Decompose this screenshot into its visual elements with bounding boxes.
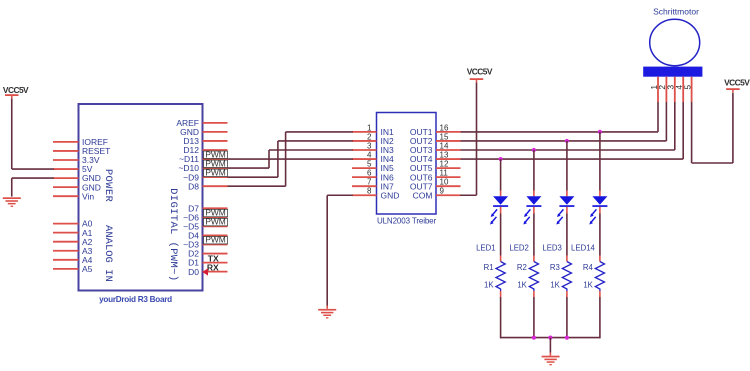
wire: stub of Arduino pin A5 (left, y=268.9) xyxy=(53,268,79,270)
wire: D8 run right xyxy=(228,185,286,187)
ground symbol (left) xyxy=(3,197,21,199)
wire: stub of Arduino pin D4 (right, y=235.5) xyxy=(203,234,228,236)
svg-text:VCC5V: VCC5V xyxy=(467,67,493,77)
wire: stepper pin 1 down to OUT1 row xyxy=(657,102,659,132)
wire: stub of Arduino pin A4 (left, y=259.8) xyxy=(53,259,79,261)
wire: stepper pin 2 stub (red) xyxy=(665,77,667,102)
svg-text:R1: R1 xyxy=(484,263,494,272)
boxed label PWM at pin row y=168.1 xyxy=(204,158,228,168)
wire: stepper pin 5 down xyxy=(691,102,693,163)
svg-text:GND: GND xyxy=(381,190,400,200)
wire: OUT3 row to stepper pin 3 xyxy=(461,149,675,151)
svg-text:3: 3 xyxy=(367,141,372,150)
wire: D10 run right xyxy=(228,167,270,169)
wire: LED1 cathode stub xyxy=(500,207,502,214)
wire: branch 3 from tap down to LED xyxy=(566,141,568,191)
svg-text:14: 14 xyxy=(440,141,449,150)
wire: stub of ULN2003 pin 8 (GND) xyxy=(352,194,377,196)
wire: branch 1 from tap down to LED xyxy=(500,159,502,190)
wire: stub of Arduino pin D7 (right, y=208.3) xyxy=(203,207,228,209)
wire: stub of Arduino pin GND (right, y=131.9) xyxy=(203,131,228,133)
svg-text:D8: D8 xyxy=(188,181,199,191)
wire: D10 to IN3 xyxy=(269,149,353,151)
svg-text:1K: 1K xyxy=(583,281,593,290)
wire: ground red tip xyxy=(549,353,551,356)
node junction LED3 tap xyxy=(565,139,569,143)
ground symbol (LED rail) xyxy=(542,356,560,358)
wire: stub of Arduino pin RESET (left, y=151.0) xyxy=(53,150,79,152)
wire: ULN2003 GND down xyxy=(326,195,328,305)
IC U2 ULN2003 outline xyxy=(377,113,437,215)
wire: Arduino GND to ground (vertical) xyxy=(11,178,13,197)
wire: LED3 anode stub xyxy=(566,191,568,197)
wire: resistor R3 top stub xyxy=(566,256,568,262)
Arduino board U1 outline (yourDroid R3) xyxy=(79,104,203,291)
wire: VCC5V to Arduino 5V (horizontal) xyxy=(12,168,54,170)
wire: stub of ULN2003 pin 9 (COM) xyxy=(436,194,461,196)
wire: stub of Arduino pin Vin (left, y=196.2) xyxy=(53,195,79,197)
wire: VCC5V to Arduino 5V (vertical) xyxy=(11,99,13,169)
wire: rail down to ground xyxy=(549,338,551,353)
wire: LED3 cathode stub xyxy=(566,207,568,214)
wire: D8 jog up xyxy=(285,132,287,186)
svg-text:6: 6 xyxy=(367,169,372,178)
svg-text:LED1: LED1 xyxy=(476,244,496,253)
boxed label PWM at pin row y=217.4 xyxy=(204,208,228,218)
LED LED1 symbol xyxy=(490,196,508,224)
wire: stepper pin 3 stub (red) xyxy=(674,77,676,102)
wire: stub of Arduino pin ~D3 (right, y=244.5) xyxy=(203,244,228,246)
node junction LED1 tap xyxy=(499,157,503,161)
wire: common cathode rail xyxy=(501,337,600,339)
wire: VCC riser (right) xyxy=(732,93,734,163)
wire: stub of ULN2003 pin 4 (IN4) xyxy=(352,158,377,160)
boxed label PWM at pin row y=177.2 xyxy=(204,167,228,177)
wire: branch 2 resistor to rail xyxy=(533,297,535,338)
svg-text:16: 16 xyxy=(440,123,449,132)
wire: LED14 cathode stub xyxy=(599,207,601,214)
svg-text:LED3: LED3 xyxy=(542,244,562,253)
node junction LED14 tap xyxy=(598,130,602,134)
wire: stub of ULN2003 pin 6 (IN6) xyxy=(352,176,377,178)
svg-text:1K: 1K xyxy=(550,281,560,290)
wire: resistor R4 top stub xyxy=(599,256,601,262)
node junction LED2 tap xyxy=(532,148,536,152)
wire: stub of Arduino pin A1 (left, y=232.7) xyxy=(53,232,79,234)
wire: D11 to IN4 xyxy=(228,158,353,160)
wire: stub of ULN2003 pin 10 (OUT7) xyxy=(436,185,461,187)
svg-text:R3: R3 xyxy=(550,263,560,272)
resistor R1 zigzag xyxy=(496,262,505,292)
wire: stub of ULN2003 pin 12 (OUT5) xyxy=(436,167,461,169)
wire: stub of Arduino pin 5V (left, y=169.1) xyxy=(53,168,79,170)
svg-text:POWER: POWER xyxy=(102,169,114,203)
svg-text:PWM: PWM xyxy=(205,217,225,227)
power symbol VCC5V (middle) xyxy=(470,78,484,80)
wire: VCC5V down to COM xyxy=(476,83,478,196)
wire: ULN2003 GND run left xyxy=(327,194,353,196)
wire: stepper pin 1 stub (red) xyxy=(657,77,659,102)
wire: stub of ULN2003 pin 13 (OUT4) xyxy=(436,158,461,160)
wire: stub of Arduino pin A3 (left, y=250.8) xyxy=(53,250,79,252)
wire: branch 1 LED to resistor xyxy=(500,214,502,256)
svg-text:VCC5V: VCC5V xyxy=(3,85,29,95)
node junction rail-LED3 xyxy=(565,336,569,340)
wire: stub of Arduino pin GND (left, y=178.1) xyxy=(53,177,79,179)
wire: resistor R2 bottom stub xyxy=(533,291,535,297)
svg-text:2: 2 xyxy=(367,132,372,141)
wire: branch 1 resistor to rail xyxy=(500,297,502,338)
wire: stepper pin 4 down to OUT4 row xyxy=(682,102,684,159)
wire: stub of Arduino pin GND (left, y=187.2) xyxy=(53,186,79,188)
ground symbol (below ULN2003) xyxy=(318,309,336,311)
wire: stepper pin 4 stub (red) xyxy=(682,77,684,102)
svg-text:VCC5V: VCC5V xyxy=(724,78,750,88)
wire: OUT1 row to stepper pin 1 xyxy=(461,131,659,133)
wire: stub of ULN2003 pin 5 (IN5) xyxy=(352,167,377,169)
svg-text:1K: 1K xyxy=(517,281,527,290)
wire: LED14 anode stub xyxy=(599,191,601,197)
wire: stub of Arduino pin D8 (right, y=186.2) xyxy=(203,185,228,187)
wire: branch 4 from tap down to LED xyxy=(599,132,601,191)
wire: stub of Arduino pin A0 (left, y=223.6) xyxy=(53,223,79,225)
wire: stub of Arduino pin D1 (right, y=262.6) xyxy=(203,262,228,264)
wire: stub of Arduino pin ~D6 (right, y=217.4) xyxy=(203,216,228,218)
wire: resistor R1 bottom stub xyxy=(500,291,502,297)
svg-text:Schrittmotor: Schrittmotor xyxy=(653,7,699,17)
wire: stub of ULN2003 pin 14 (OUT3) xyxy=(436,149,461,151)
svg-text:R4: R4 xyxy=(583,263,594,272)
svg-text:RX: RX xyxy=(207,263,219,273)
wire: LED2 anode stub xyxy=(533,191,535,197)
svg-text:5: 5 xyxy=(367,160,372,169)
wire: Arduino GND to ground (horizontal) xyxy=(12,177,54,179)
svg-text:Vin: Vin xyxy=(82,191,94,201)
stepper motor connector block xyxy=(643,67,702,77)
wire: stub of ULN2003 pin 1 (IN1) xyxy=(352,131,377,133)
resistor R2 zigzag xyxy=(529,262,538,292)
node junction rail-ground xyxy=(548,336,552,340)
wire: stub of ULN2003 pin 16 (OUT1) xyxy=(436,131,461,133)
svg-text:D0: D0 xyxy=(188,267,199,277)
wire: stub of Arduino pin D0 (right, y=271.7) xyxy=(203,271,228,273)
svg-text:8: 8 xyxy=(367,187,372,196)
wire: stub of Arduino pin D2 (right, y=253.6) xyxy=(203,253,228,255)
svg-text:12: 12 xyxy=(440,160,449,169)
power symbol VCC5V (right) xyxy=(726,88,740,90)
wire: branch 2 from tap down to LED xyxy=(533,150,535,191)
wire: stub of Arduino pin ~D5 (right, y=226.4) xyxy=(203,225,228,227)
wire: stub of Arduino pin IOREF (left, y=141.9) xyxy=(53,141,79,143)
wire: branch 3 resistor to rail xyxy=(566,297,568,338)
LED LED2 symbol xyxy=(523,196,541,224)
svg-text:1: 1 xyxy=(367,123,372,132)
svg-text:4: 4 xyxy=(367,150,372,159)
wire: D9 to IN2 xyxy=(278,140,353,142)
wire: D9 run right xyxy=(228,176,278,178)
wire: D8 to IN1 xyxy=(286,131,353,133)
wire: stub of Arduino pin A2 (left, y=241.7) xyxy=(53,241,79,243)
resistor R3 zigzag xyxy=(562,262,571,292)
boxed label PWM at pin row y=244.5 xyxy=(204,235,228,245)
stepper motor M1 body (circle) xyxy=(650,19,700,65)
svg-text:13: 13 xyxy=(440,150,449,159)
wire: branch 3 LED to resistor xyxy=(566,214,568,256)
svg-text:COM: COM xyxy=(413,190,433,200)
svg-text:10: 10 xyxy=(440,178,449,187)
LED LED14 symbol xyxy=(589,196,607,224)
wire: LED1 anode stub xyxy=(500,191,502,197)
LED LED3 symbol xyxy=(556,196,574,224)
wire: stub of Arduino pin ~D9 (right, y=177.2) xyxy=(203,176,228,178)
wire: OUT4 row to stepper pin 4 xyxy=(461,158,684,160)
wire: resistor R1 top stub xyxy=(500,256,502,262)
wire: resistor R2 top stub xyxy=(533,256,535,262)
wire: stub of Arduino pin AREF (right, y=122.8) xyxy=(203,122,228,124)
svg-text:DIGITAL (PWM~): DIGITAL (PWM~) xyxy=(167,188,179,281)
wire: stub of Arduino pin D13 (right, y=140.9) xyxy=(203,140,228,142)
wire: ULN2003 GND red tip xyxy=(326,306,328,309)
svg-text:PWM: PWM xyxy=(205,235,225,245)
wire: stub of Arduino pin ~D11 (right, y=159.1) xyxy=(203,158,228,160)
wire: stepper pin 2 down to OUT2 row xyxy=(665,102,667,141)
svg-text:1K: 1K xyxy=(484,281,494,290)
node junction rail-LED2 xyxy=(532,336,536,340)
svg-text:yourDroid R3 Board: yourDroid R3 Board xyxy=(99,295,172,304)
svg-text:7: 7 xyxy=(367,178,372,187)
wire: stub of Arduino pin ~D10 (right, y=168.1) xyxy=(203,167,228,169)
wire: branch 4 LED to resistor xyxy=(599,214,601,256)
resistor R4 zigzag xyxy=(595,262,604,292)
svg-text:LED2: LED2 xyxy=(509,244,529,253)
wire: LED2 cathode stub xyxy=(533,207,535,214)
power symbol VCC5V (left) xyxy=(5,94,19,96)
svg-text:11: 11 xyxy=(440,169,449,178)
wire: VCC5V to COM (horizontal) xyxy=(460,194,477,196)
wire: resistor R3 bottom stub xyxy=(566,291,568,297)
wire: stub of Arduino pin D12 (right, y=150.0) xyxy=(203,149,228,151)
wire: stub of ULN2003 pin 2 (IN2) xyxy=(352,140,377,142)
wire: stub of ULN2003 pin 15 (OUT2) xyxy=(436,140,461,142)
wire: branch 4 resistor to rail xyxy=(599,297,601,338)
wire: branch 2 LED to resistor xyxy=(533,214,535,256)
svg-text:15: 15 xyxy=(440,132,449,141)
svg-text:9: 9 xyxy=(440,187,445,196)
wire: stepper pin 3 down to OUT3 row xyxy=(674,102,676,150)
svg-text:LED14: LED14 xyxy=(571,244,596,253)
wire: D9 jog up xyxy=(277,141,279,177)
RX input arrow at pin D0 xyxy=(202,268,208,275)
svg-text:R2: R2 xyxy=(517,263,527,272)
wire: D10 jog up xyxy=(268,150,270,168)
wire: stub of ULN2003 pin 7 (IN7) xyxy=(352,185,377,187)
wire: OUT2 row to stepper pin 2 xyxy=(461,140,667,142)
wire: stub of ULN2003 pin 11 (OUT6) xyxy=(436,176,461,178)
wire: stepper pin 5 to VCC (horizontal) xyxy=(692,162,733,164)
wire: stepper pin 5 stub (red) xyxy=(691,77,693,102)
svg-text:ANALOG IN: ANALOG IN xyxy=(102,225,114,282)
boxed label PWM at pin row y=159.1 xyxy=(204,149,228,159)
wire: resistor R4 bottom stub xyxy=(599,291,601,297)
wire: stub of ULN2003 pin 3 (IN3) xyxy=(352,149,377,151)
svg-text:A5: A5 xyxy=(82,264,93,274)
svg-text:ULN2003 Treiber: ULN2003 Treiber xyxy=(377,217,437,226)
wire: stub of Arduino pin 3.3V (left, y=160.0) xyxy=(53,159,79,161)
boxed label PWM at pin row y=226.4 xyxy=(204,217,228,227)
svg-text:PWM: PWM xyxy=(205,167,225,177)
